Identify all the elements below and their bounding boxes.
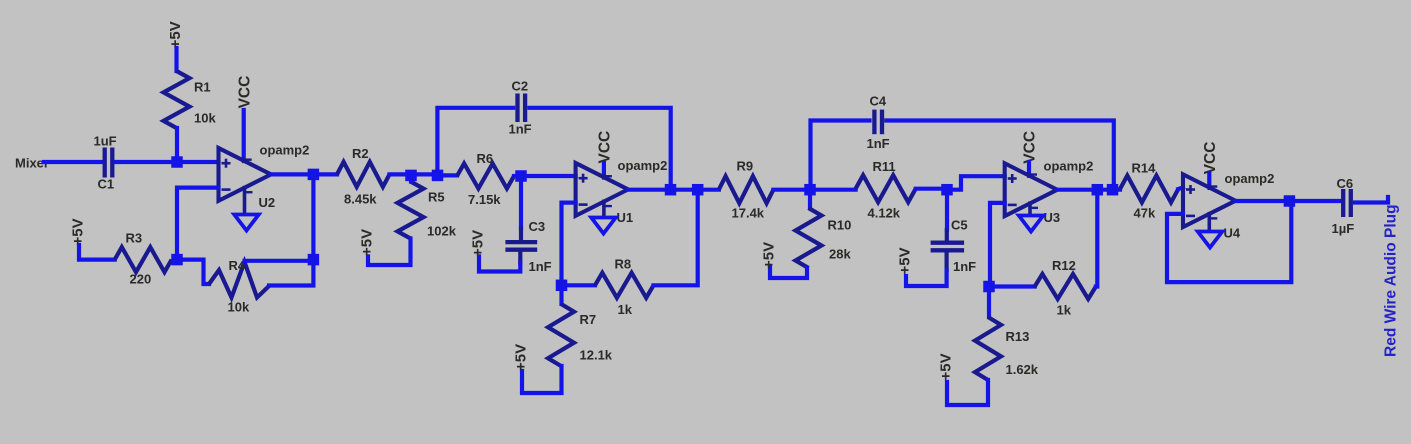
node O junction (C4 fb) (1107, 184, 1119, 196)
label R6 value 7.15k (468, 192, 501, 207)
node P junction (U4 out) (1284, 195, 1296, 207)
label R13 (1006, 329, 1030, 344)
wire C2 left (437, 108, 513, 175)
svg-text:opamp2: opamp2 (260, 143, 310, 158)
svg-text:1nF: 1nF (953, 259, 976, 274)
svg-text:R10: R10 (828, 218, 852, 233)
svg-text:VCC: VCC (1202, 142, 1219, 175)
svg-text:10k: 10k (194, 111, 216, 126)
svg-text:U4: U4 (1224, 226, 1241, 241)
svg-text:opamp2: opamp2 (1044, 159, 1094, 174)
op-amp U3 (1005, 163, 1057, 216)
label U1 (617, 210, 634, 225)
power VCC (U4) (1202, 142, 1219, 175)
label R1 value 10k (194, 111, 216, 126)
wire node H to R8 (562, 283, 596, 287)
svg-text:C3: C3 (529, 219, 546, 234)
capacitor C4 (874, 110, 882, 135)
wire C3 top lead (519, 176, 523, 241)
svg-text:VCC: VCC (597, 131, 614, 164)
label opamp2 (U4) (1225, 171, 1275, 186)
wire R11 to node L (916, 187, 947, 191)
wire C2 right (529, 108, 670, 190)
wire C6 to plug (1355, 197, 1388, 203)
label C2 value 1nF (509, 122, 532, 137)
label R8 (615, 257, 632, 272)
op-amp U1 (576, 163, 629, 217)
label R6 (477, 151, 494, 166)
wire R12 to output riser (1096, 190, 1097, 287)
node E junction (R5) (405, 170, 417, 182)
svg-text:R12: R12 (1052, 258, 1076, 273)
power +5V (R7) (512, 344, 529, 371)
label R4 value 10k (228, 300, 250, 315)
ground (U2) (234, 215, 259, 231)
resistor R6 (457, 164, 514, 189)
svg-text:+5V: +5V (896, 247, 913, 274)
resistor R12 (1035, 274, 1096, 299)
wire R8 to output riser (654, 190, 698, 286)
wire VCC to U3 (1027, 162, 1031, 174)
label C6 (1337, 176, 1354, 191)
power +5V (R10) (760, 242, 777, 269)
svg-text:R9: R9 (737, 159, 754, 174)
label R10 value 28k (829, 247, 851, 262)
svg-text:+5V: +5V (937, 353, 954, 380)
resistor R2 (337, 162, 390, 187)
wire R14 to U4 +in (1178, 188, 1183, 190)
svg-text:1.62k: 1.62k (1006, 362, 1039, 377)
wire VCC to U2 (242, 110, 246, 160)
svg-text:opamp2: opamp2 (618, 158, 668, 173)
resistor R4 (209, 262, 269, 298)
label U4 (1224, 226, 1241, 241)
wire node G to U1 +in (521, 174, 576, 178)
label R3 (126, 231, 143, 246)
svg-text:+5V: +5V (167, 21, 184, 48)
resistor R14 (1120, 176, 1178, 203)
label R1 (194, 80, 211, 95)
svg-text:U1: U1 (617, 210, 634, 225)
ground (U1) (591, 218, 616, 234)
svg-text:R3: R3 (126, 231, 143, 246)
resistor R3 (115, 247, 172, 272)
node I junction (C2 fb) (665, 184, 677, 196)
resistor R9 (719, 176, 774, 203)
capacitor C5 lead (945, 190, 949, 241)
label C1 (98, 177, 115, 192)
svg-text:220: 220 (130, 272, 152, 287)
wire node C riser (311, 174, 315, 259)
capacitor C5 (931, 243, 965, 251)
capacitor C2 (518, 94, 526, 123)
label R8 value 1k (618, 302, 633, 317)
wire +5V to R3 (79, 245, 115, 260)
label R10 (828, 218, 852, 233)
label R9 value 17.4k (732, 206, 765, 221)
wire node B to R4 (177, 260, 209, 284)
wire R7 to +5V (522, 366, 562, 393)
label opamp2 (U2) (260, 143, 310, 158)
svg-text:10k: 10k (228, 300, 250, 315)
svg-text:102k: 102k (427, 224, 457, 239)
node F junction (C2 left) (432, 170, 444, 182)
svg-text:R11: R11 (873, 159, 896, 174)
capacitor C6 (1343, 189, 1351, 217)
wire R1 to node A (175, 128, 179, 162)
svg-text:R1: R1 (194, 80, 211, 95)
label C1 value 1uF (94, 134, 117, 149)
svg-text:1µF: 1µF (1332, 221, 1355, 236)
label C4 (870, 94, 887, 109)
label C6 value 1uF (1332, 221, 1355, 236)
resistor R1 (164, 71, 190, 128)
svg-text:4.12k: 4.12k (868, 206, 901, 221)
power VCC (U2) (236, 76, 253, 109)
wire U4 output (1236, 199, 1340, 203)
svg-text:+5V: +5V (512, 344, 529, 371)
wire U1 -in riser (562, 203, 576, 286)
svg-text:R6: R6 (477, 151, 494, 166)
power +5V (R13) (937, 353, 954, 380)
wire R2 to node E (390, 172, 438, 176)
power +5V (R1) (167, 21, 184, 48)
wire R10 to +5V (770, 268, 807, 279)
label R2 value 8.45k (344, 192, 377, 207)
node B junction (171, 254, 183, 266)
svg-text:C2: C2 (512, 79, 529, 94)
svg-text:1nF: 1nF (867, 136, 890, 151)
svg-text:1k: 1k (1057, 303, 1072, 318)
label C3 (529, 219, 546, 234)
label R4 (229, 258, 246, 273)
power VCC (U1) (597, 131, 614, 164)
svg-text:U3: U3 (1044, 210, 1061, 225)
wire C3 bottom lead (479, 251, 520, 272)
label R7 value 12.1k (580, 348, 613, 363)
svg-text:C1: C1 (98, 177, 115, 192)
resistor R13 (975, 287, 1001, 381)
label U3 (1044, 210, 1061, 225)
svg-text:opamp2: opamp2 (1225, 171, 1275, 186)
label C5 value 1nF (953, 259, 976, 274)
svg-text:+5V: +5V (358, 229, 375, 256)
svg-text:47k: 47k (1134, 206, 1156, 221)
svg-text:VCC: VCC (236, 76, 253, 109)
capacitor C3 (505, 242, 537, 250)
wire node A to U2 +in (177, 160, 219, 164)
wire U4 feedback (1167, 201, 1291, 282)
label R5 value 102k (427, 224, 457, 239)
node A junction (171, 156, 183, 168)
wire U2 output (271, 172, 337, 176)
resistor R11 (856, 175, 916, 202)
label R11 value 4.12k (868, 206, 901, 221)
label R2 (352, 146, 369, 161)
label R12 (1052, 258, 1076, 273)
node G junction (515, 170, 527, 182)
svg-text:1k: 1k (618, 302, 633, 317)
label C5 (951, 218, 968, 233)
svg-text:7.15k: 7.15k (468, 192, 501, 207)
power +5V (R3) (69, 218, 86, 245)
wire U3 -in riser (990, 203, 1005, 287)
resistor R7 (548, 285, 574, 366)
svg-text:28k: 28k (829, 247, 851, 262)
wire R6 to node G (514, 174, 521, 178)
wire R5 leads (368, 174, 411, 265)
net label Mixer (15, 156, 49, 171)
wire node K to R11 (810, 188, 856, 192)
svg-text:C4: C4 (870, 94, 887, 109)
ground (U3) (1019, 216, 1044, 232)
svg-text:8.45k: 8.45k (344, 192, 377, 207)
resistor R10 (796, 190, 822, 268)
op-amp U2 (219, 148, 272, 214)
label R5 (428, 190, 445, 205)
svg-text:1uF: 1uF (94, 134, 117, 149)
label R9 (737, 159, 754, 174)
node M junction (983, 281, 995, 293)
svg-text:+5V: +5V (69, 218, 86, 245)
wire C4 left (811, 121, 870, 190)
wire node M to R12 (989, 284, 1035, 288)
svg-text:R2: R2 (352, 146, 369, 161)
node H junction (556, 280, 568, 292)
svg-text:1nF: 1nF (529, 259, 552, 274)
svg-text:C5: C5 (951, 218, 968, 233)
node L junction (941, 184, 953, 196)
svg-text:+5V: +5V (760, 242, 777, 269)
wire VCC to U1 (602, 163, 606, 175)
label U2 (259, 195, 276, 210)
label R3 value 220 (130, 272, 152, 287)
node C junction (R4 top) (308, 254, 320, 266)
wire U2 -in to node B (177, 188, 219, 260)
wire C5 bottom lead (906, 252, 947, 286)
wire +5V to R1 (174, 48, 178, 71)
wire R4 feedback loop (245, 261, 314, 286)
label opamp2 (U3) (1044, 159, 1094, 174)
op-amp U4 (1183, 174, 1236, 230)
wire C4 right (886, 121, 1114, 190)
ground (U4) (1198, 232, 1223, 248)
node N junction (R12 fb) (1092, 184, 1104, 196)
svg-text:Red Wire Audio Plug: Red Wire Audio Plug (1383, 204, 1400, 357)
node D junction (U2 out) (308, 169, 320, 181)
label R14 value 47k (1134, 206, 1156, 221)
label R12 value 1k (1057, 303, 1072, 318)
wire U1 output (628, 188, 719, 192)
resistor R8 (595, 273, 654, 298)
svg-text:R14: R14 (1132, 161, 1157, 176)
svg-text:+5V: +5V (469, 230, 486, 257)
resistor R5 (398, 182, 424, 239)
svg-text:U2: U2 (259, 195, 276, 210)
wire R13 to +5V (947, 380, 988, 405)
power VCC (U3) (1022, 131, 1039, 164)
node K junction (804, 184, 816, 196)
capacitor C1 (105, 148, 113, 178)
label R14 (1132, 161, 1157, 176)
label C3 value 1nF (529, 259, 552, 274)
wire R9 to node K (773, 188, 810, 192)
label C2 (512, 79, 529, 94)
svg-text:1nF: 1nF (509, 122, 532, 137)
label opamp2 (U1) (618, 158, 668, 173)
wire VCC to U4 (1207, 173, 1211, 186)
power +5V (C5) (896, 247, 913, 274)
svg-text:VCC: VCC (1022, 131, 1039, 164)
power +5V (C3) (469, 230, 486, 257)
wire node L to U3 +in (947, 176, 1005, 190)
svg-text:R13: R13 (1006, 329, 1030, 344)
svg-text:C6: C6 (1337, 176, 1354, 191)
label C4 value 1nF (867, 136, 890, 151)
svg-text:R7: R7 (580, 312, 597, 327)
wire C1 to node A (116, 160, 177, 164)
svg-text:17.4k: 17.4k (732, 206, 765, 221)
svg-text:R5: R5 (428, 190, 445, 205)
wire Mixer to C1 (44, 160, 101, 164)
svg-text:R8: R8 (615, 257, 632, 272)
net label Red Wire Audio Plug (1383, 204, 1400, 357)
wire node F to R6 (438, 173, 458, 177)
label R7 (580, 312, 597, 327)
node J junction (R8 fb) (692, 184, 704, 196)
svg-text:12.1k: 12.1k (580, 348, 613, 363)
power +5V (R5) (358, 229, 375, 256)
wire U3 output (1057, 188, 1120, 192)
label R13 value 1.62k (1006, 362, 1039, 377)
label R11 (873, 159, 896, 174)
